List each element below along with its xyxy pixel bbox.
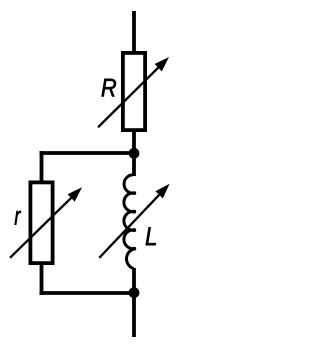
wire inductor to node B <box>132 268 136 293</box>
node A (top junction) <box>129 148 140 159</box>
inductor L1 variable arrow <box>99 184 169 258</box>
resistor R1 body <box>123 53 145 130</box>
coil cusp junctions <box>132 191 136 250</box>
resistor R1 variable arrow <box>98 57 169 127</box>
wire left branch down to r <box>40 151 44 183</box>
label L <box>146 227 156 245</box>
label r <box>15 211 22 225</box>
wire bottom horizontal to node B <box>40 291 134 295</box>
node B (bottom junction) <box>129 287 140 298</box>
resistor r variable arrow <box>10 187 82 257</box>
wire R1 to node A <box>132 130 136 156</box>
resistor r body <box>30 182 52 263</box>
wire node A to inductor <box>132 153 136 176</box>
wire r to bottom horizontal <box>40 263 44 295</box>
wire top horizontal to left branch <box>40 151 134 155</box>
wire bottom lead <box>132 293 136 337</box>
label R <box>102 79 116 96</box>
wire top lead <box>132 11 136 53</box>
inductor L1 coil <box>124 175 135 269</box>
